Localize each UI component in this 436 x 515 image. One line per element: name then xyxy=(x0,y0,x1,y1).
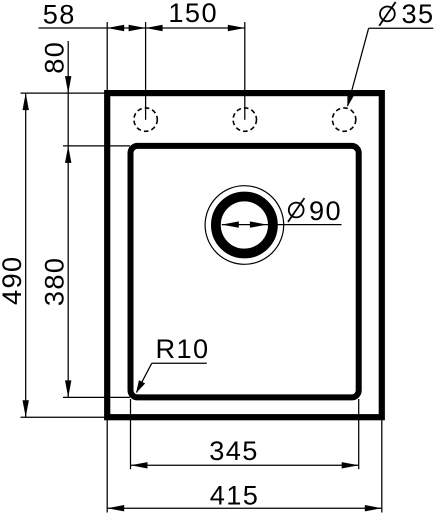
arrow 490 bottom xyxy=(23,400,29,417)
arrow 415 right xyxy=(365,505,382,511)
svg-text:90: 90 xyxy=(309,195,342,226)
sink bowl inner rectangle (345 x 380, R10 corners) xyxy=(131,146,359,398)
arrow 80 top outside xyxy=(65,76,71,93)
extension line outer-left for 58 xyxy=(106,22,108,90)
arrow 345 left xyxy=(131,462,148,468)
arrow 345 right xyxy=(342,462,359,468)
extension line hole2 center xyxy=(244,22,246,120)
leader shoulder R10 xyxy=(152,362,207,364)
arrow 80/380 shared xyxy=(65,146,71,163)
svg-text:150: 150 xyxy=(168,0,218,28)
arrow 58 right xyxy=(129,25,146,31)
svg-text:35: 35 xyxy=(402,0,435,29)
extension line outer-bottom left xyxy=(21,416,107,418)
extension line bowl-left bottom xyxy=(130,399,132,469)
arrow 150 left xyxy=(146,25,163,31)
svg-text:490: 490 xyxy=(0,255,27,305)
dimension line 490 xyxy=(25,93,27,417)
extension line outer-right bottom xyxy=(381,420,383,513)
svg-text:80: 80 xyxy=(38,41,69,74)
arrow d90 right xyxy=(250,221,267,227)
arrow 150 right xyxy=(228,25,245,31)
extension line bowl-right bottom xyxy=(358,399,360,469)
extension line outer-top left xyxy=(21,92,107,94)
arrow 380 bottom xyxy=(65,380,71,397)
arrow R10 leader xyxy=(136,380,145,393)
arrow 58 left xyxy=(107,25,124,31)
dimension line d90 xyxy=(222,224,342,226)
dimension line 80/380 xyxy=(67,41,69,397)
svg-text:R10: R10 xyxy=(156,333,210,364)
diameter symbol for 90 xyxy=(288,198,304,222)
extension line bowl-bottom left xyxy=(63,396,130,398)
arrow d35 leader xyxy=(347,93,354,106)
drain thick ring d90 xyxy=(216,197,273,254)
drain outer thin circle xyxy=(205,186,284,265)
leader line R10 xyxy=(137,363,152,392)
leader shoulder d35 xyxy=(369,27,434,29)
svg-text:58: 58 xyxy=(43,0,76,30)
dimension line 345 xyxy=(131,464,359,466)
arrow d90 left xyxy=(222,221,239,227)
dimension line 58/150 xyxy=(39,27,245,29)
svg-text:380: 380 xyxy=(38,257,69,307)
tap hole 2 dashed circle d35 xyxy=(233,108,256,131)
extension line bowl-top left xyxy=(63,145,130,147)
tap hole 1 dashed circle d35 xyxy=(134,108,157,131)
extension line hole1 center xyxy=(145,22,147,120)
extension line outer-left bottom xyxy=(106,420,108,513)
sink outer rim rectangle (415 x 490) xyxy=(107,93,382,417)
dimension line 415 xyxy=(107,507,382,509)
arrow 415 left xyxy=(107,505,124,511)
diameter symbol for 35 xyxy=(379,2,395,26)
tap hole 3 dashed circle d35 xyxy=(332,108,355,131)
svg-text:345: 345 xyxy=(209,435,259,466)
svg-text:415: 415 xyxy=(210,480,260,511)
arrow 490 top xyxy=(23,93,29,110)
leader line d35 xyxy=(348,28,369,106)
